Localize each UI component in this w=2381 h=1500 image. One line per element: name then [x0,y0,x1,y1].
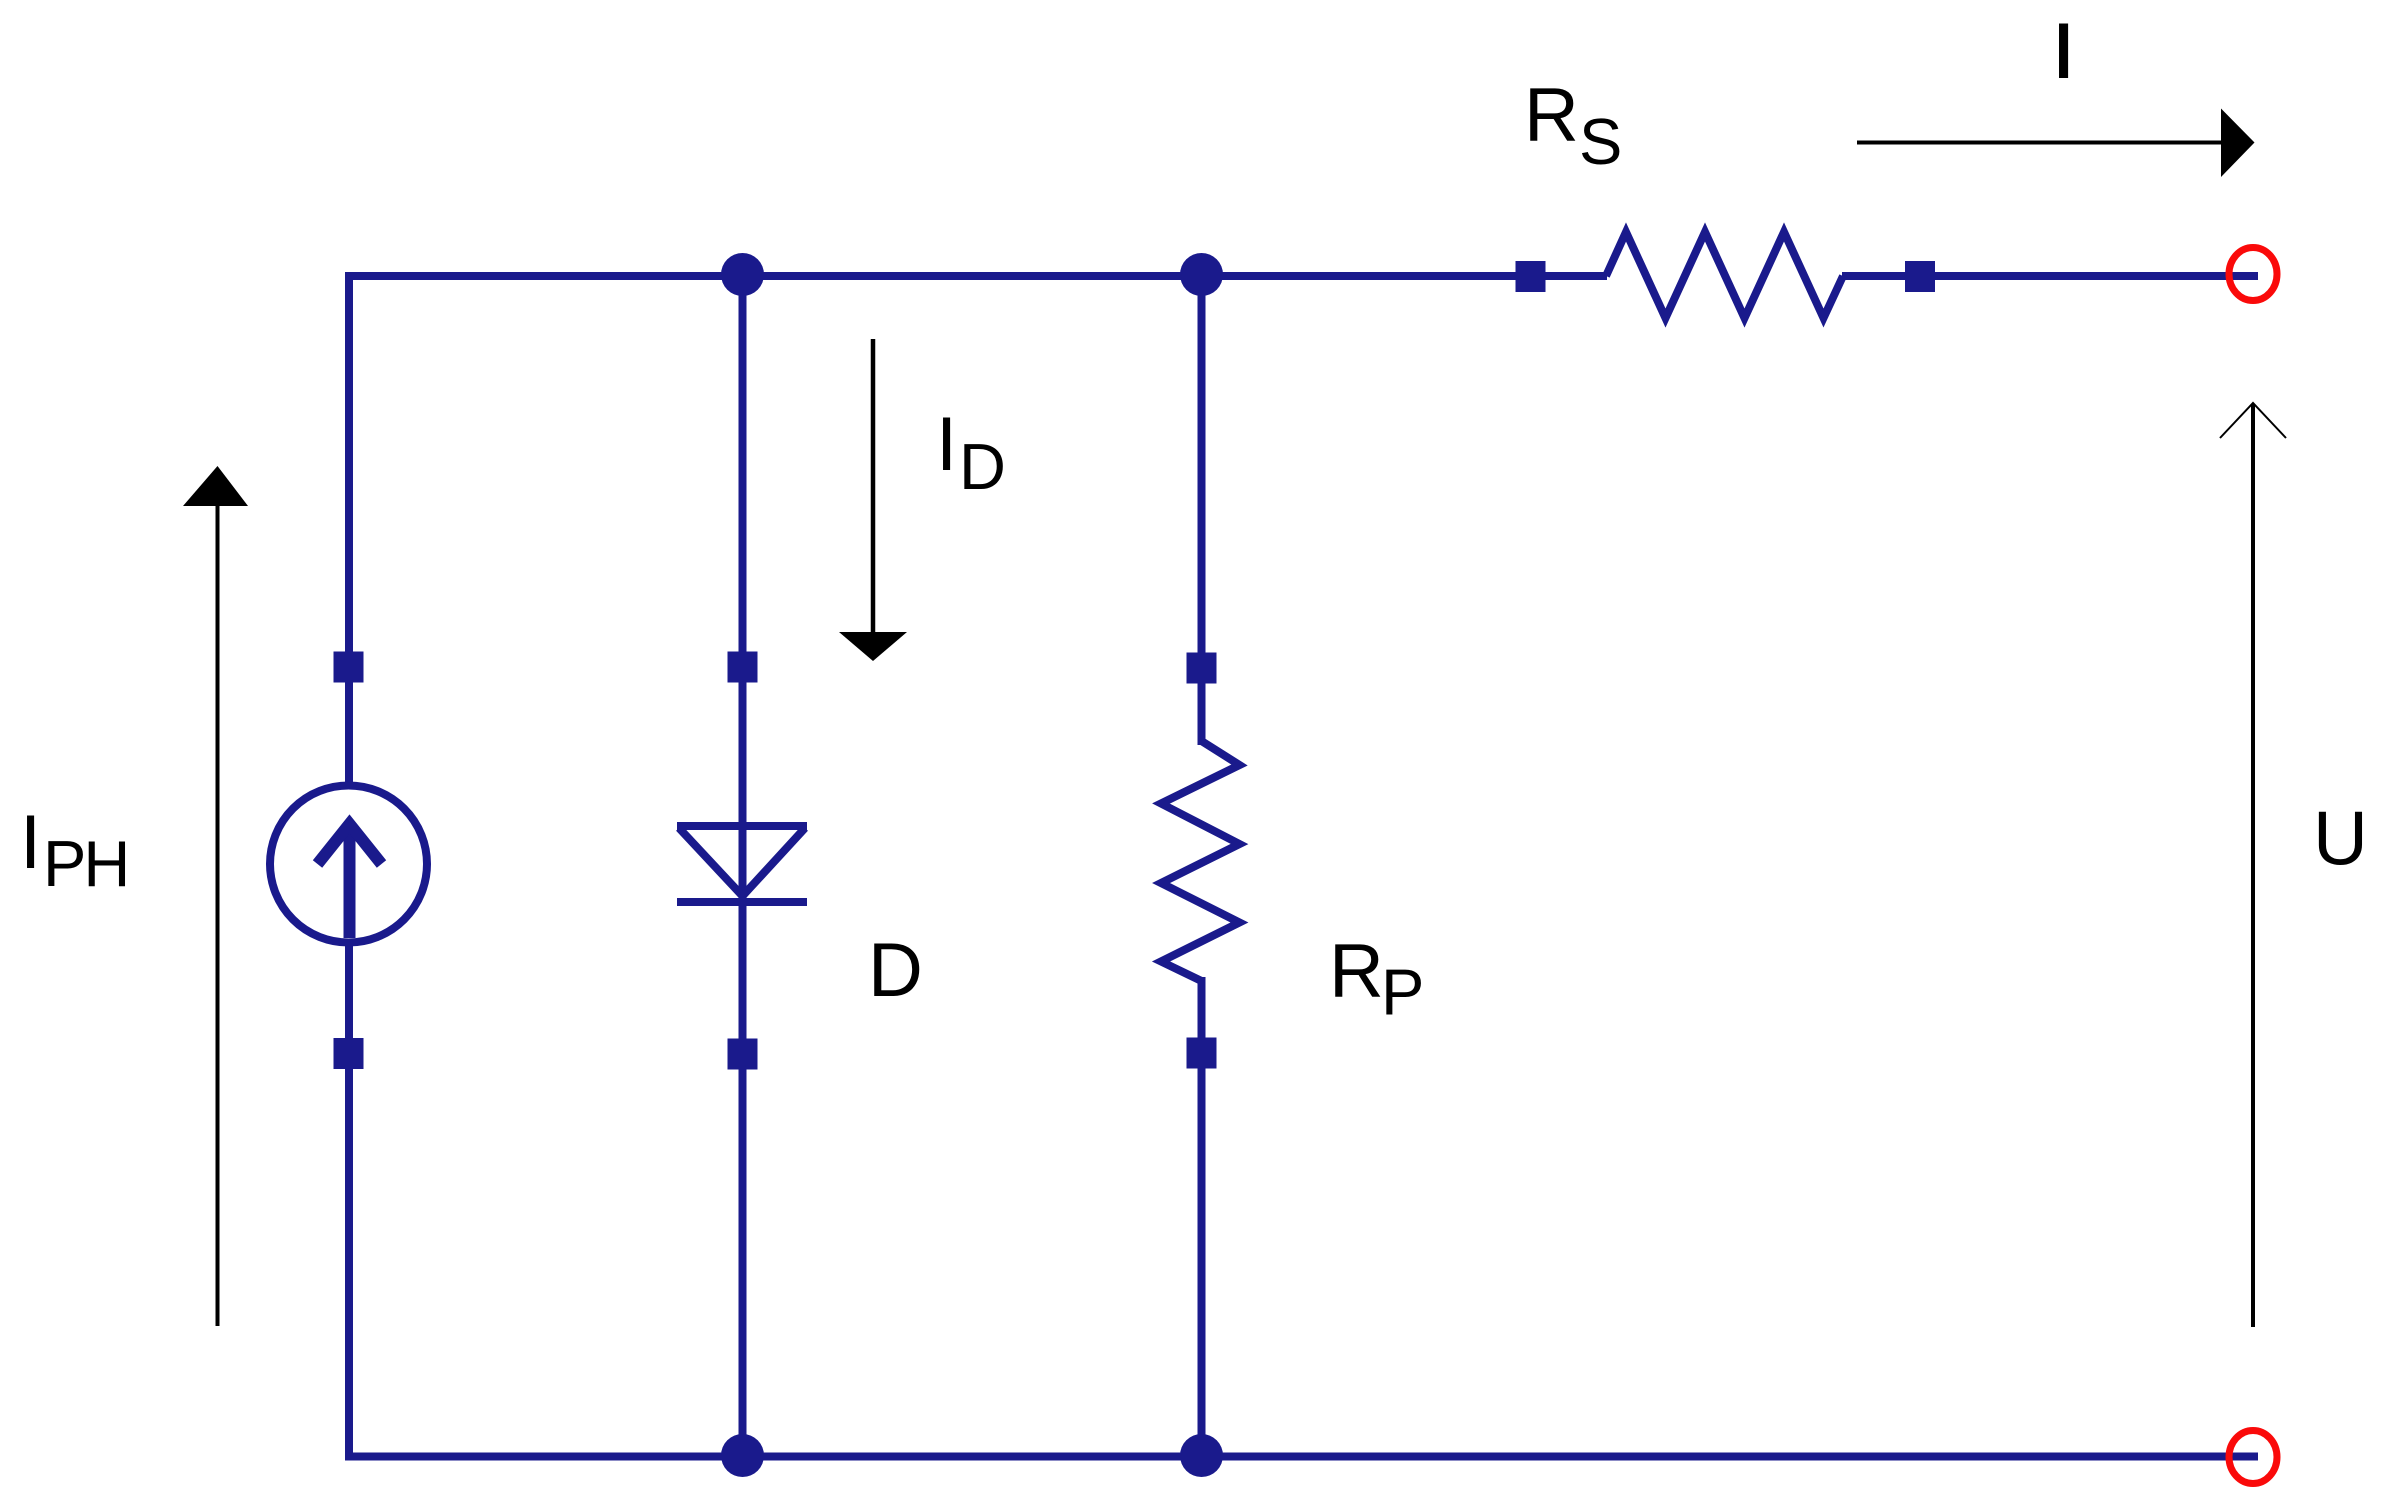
svg-text:I: I [20,800,41,885]
pin: square pad upper diode branch [728,652,758,683]
wire: bottom rail [345,1453,2258,1461]
diode D: triangle left side [679,828,743,896]
terminal: output terminal bottom (red circle) [2229,1431,2277,1484]
arrow: photocurrent IPH (head) [183,466,248,506]
svg-text:PH: PH [43,827,127,900]
node: junction dot bottom of Rp branch [1180,1434,1223,1477]
arrow: output current I (head) [2221,109,2255,178]
terminal: output terminal top (red circle) [2229,248,2277,301]
wire: top rail left segment (node between source, diode, Rp, to Rs) [345,272,1607,280]
pin: square pad upper left branch [334,652,364,683]
node: junction dot bottom of diode branch [721,1434,764,1477]
diode D: triangle right side [743,828,806,896]
wire: left branch vertical (photocurrent source branch, lower part) [345,943,353,1461]
wire: left branch vertical (photocurrent source branch, upper part) [345,272,353,786]
pin: square pad lower Rp branch [1187,1038,1217,1069]
arrow: photocurrent IPH (line) [216,500,220,1326]
arrow: output voltage U (open head) [2220,403,2286,438]
svg-text:D: D [959,430,1006,503]
pin: square pad right of Rs [1905,261,1935,292]
svg-text:R: R [1524,73,1579,158]
wire: diode branch vertical [739,274,747,1456]
resistor Rs: horizontal zigzag body [1606,232,1843,318]
resistor Rp: vertical zigzag body [1161,741,1240,981]
svg-text:P: P [1381,956,1424,1029]
arrow: output voltage U (line) [2251,404,2255,1327]
current source IPH: circle [270,786,427,943]
wire: top rail right segment (Rs to output terminal) [1842,272,2258,280]
arrow: diode current ID (line) [871,339,876,634]
current source IPH: arrow head chevron [318,824,382,864]
svg-text:D: D [868,928,923,1013]
pin: square pad lower left branch [334,1038,364,1069]
diode D: cathode bar [677,898,807,906]
pin: square pad upper Rp branch [1187,653,1217,684]
svg-text:R: R [1329,929,1384,1014]
svg-text:I: I [2053,9,2074,94]
arrow: output current I (line) [1857,141,2222,145]
svg-text:S: S [1579,105,1622,178]
current source IPH: arrow stem [344,824,356,938]
svg-text:I: I [936,402,957,487]
pin: square pad lower diode branch [728,1039,758,1070]
arrow: diode current ID (head) [839,632,907,661]
node: junction dot top of diode branch [721,253,764,296]
diode D: anode bar (triangle top edge) [677,822,807,830]
wire: Rp branch vertical lower part [1198,977,1206,1456]
wire: Rp branch vertical upper part [1198,274,1206,745]
node: junction dot top of Rp branch [1180,253,1223,296]
pin: square pad left of Rs [1516,261,1546,292]
svg-text:U: U [2313,797,2368,882]
